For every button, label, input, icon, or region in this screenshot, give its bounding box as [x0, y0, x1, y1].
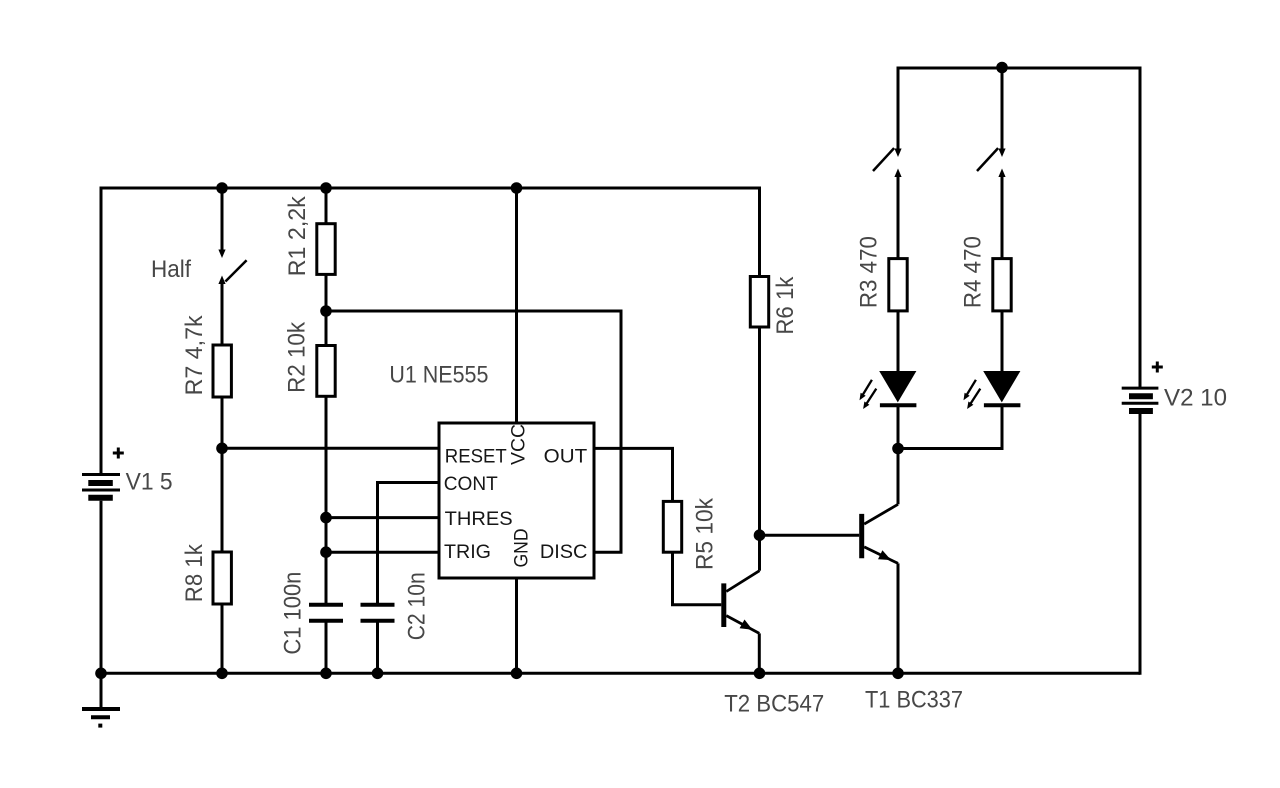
svg-text:GND: GND: [511, 529, 533, 568]
switch S2 bottom contact arrow: [998, 169, 1005, 178]
node GND bottom rail: [511, 668, 523, 680]
capacitor C2 bottom plate: [361, 619, 395, 623]
wire GND lead: [515, 578, 518, 673]
wire DISC net: [326, 311, 621, 552]
LED D2 cathode bar: [984, 403, 1021, 407]
wire R6 to T2 node: [758, 327, 761, 535]
battery V1 plate 2 (short): [88, 480, 113, 486]
node C2 bottom rail: [372, 668, 384, 680]
svg-text:R4 470: R4 470: [960, 236, 987, 308]
node C1 bottom rail: [320, 668, 332, 680]
ground bar 3: [98, 724, 102, 728]
wire CONT net: [378, 483, 440, 604]
resistor R1 body: [317, 224, 335, 275]
wire top right rail: [898, 67, 1140, 70]
svg-text:R3 470: R3 470: [856, 236, 883, 308]
battery V2 plate 3 (long): [1122, 402, 1159, 405]
node R1-R2 / DISC junction: [320, 305, 332, 317]
transistor T2 emitter arrow: [740, 620, 753, 630]
wire R3 to LED D1: [897, 311, 900, 372]
wire switch Half top lead: [221, 188, 224, 251]
capacitor C1 top plate: [309, 603, 343, 607]
wire RESET net: [222, 447, 439, 450]
switch S1 top contact arrow: [894, 149, 901, 158]
battery V1 plus sign: [113, 448, 124, 459]
svg-text:U1 NE555: U1 NE555: [389, 362, 488, 389]
battery V2 plate 4 (short): [1129, 408, 1153, 414]
wire T2 collector riser: [758, 535, 761, 571]
wire OUT net: [594, 448, 673, 501]
node left rail bottom: [95, 668, 107, 680]
resistor R6 body: [750, 277, 768, 328]
wire T2 emitter drop: [758, 633, 761, 673]
wire LED D1 to node: [897, 405, 900, 448]
wire left rail bottom (V1 minus lead): [100, 501, 103, 673]
switch S2 lever: [977, 148, 998, 171]
LED D2 triangle: [983, 371, 1020, 402]
transistor T1 emitter arrow: [878, 550, 891, 560]
resistor R7 body: [213, 345, 231, 397]
svg-text:R8 1k: R8 1k: [181, 543, 208, 602]
svg-text:R1 2,2k: R1 2,2k: [284, 195, 311, 276]
wire switch Half to R7: [221, 282, 224, 345]
node R1 top: [320, 182, 332, 194]
wire C1 to bottom rail: [325, 623, 328, 674]
svg-text:VCC: VCC: [508, 424, 530, 465]
resistor R3 body: [889, 259, 907, 311]
svg-text:R6 1k: R6 1k: [772, 276, 799, 335]
LED D1 triangle: [879, 371, 916, 402]
svg-text:TRIG: TRIG: [444, 541, 491, 563]
svg-text:OUT: OUT: [544, 445, 588, 467]
node TRIG junction: [320, 546, 332, 558]
node switch column top: [216, 182, 228, 194]
wire left rail top (V1 plus lead): [100, 187, 103, 475]
LED D1 cathode bar: [880, 403, 917, 407]
svg-text:T1 BC337: T1 BC337: [865, 687, 963, 714]
svg-text:CONT: CONT: [444, 473, 498, 495]
svg-text:THRES: THRES: [445, 508, 513, 530]
LED D2 light arrow 2: [969, 389, 980, 406]
node R7-R8 / RESET junction: [216, 443, 228, 455]
LED D1 light arrow 2: [865, 389, 876, 406]
node T2 collector / T1 base: [754, 529, 766, 541]
battery V1 plate 3 (long): [82, 489, 120, 492]
svg-text:C2 10n: C2 10n: [404, 572, 431, 640]
battery V2 plate 2 (short): [1129, 393, 1153, 399]
wire S1 to R3: [897, 175, 900, 259]
node T2 emitter bottom rail: [754, 668, 766, 680]
wire T1 base net: [760, 534, 860, 537]
svg-text:V1 5: V1 5: [126, 469, 173, 496]
wire R1 top lead: [325, 188, 328, 224]
resistor R4 body: [993, 259, 1011, 311]
transistor T2 collector: [726, 571, 759, 592]
wire VCC lead: [515, 188, 518, 423]
LED D2 light arrow 1: [966, 380, 976, 397]
capacitor C2 top plate: [361, 603, 395, 607]
wire R1 to R2: [325, 274, 328, 345]
switch Half lever: [225, 260, 246, 281]
wire switch S1 top lead: [897, 67, 900, 150]
wire R5 to T2 base: [673, 552, 722, 605]
switch S1 lever: [873, 148, 894, 171]
ground stub: [100, 673, 103, 708]
svg-text:R5 10k: R5 10k: [692, 497, 719, 570]
battery V1 plate 1 (long +): [82, 473, 120, 476]
wire S2 to R4: [1001, 175, 1004, 259]
node R8 bottom rail: [216, 668, 228, 680]
battery V2 plus sign: [1152, 362, 1163, 373]
svg-text:T2 BC547: T2 BC547: [724, 691, 824, 718]
transistor T1 collector: [864, 504, 898, 524]
resistor R5 body: [663, 501, 681, 552]
battery V1 plate 4 (short): [88, 495, 113, 501]
wire R4 to LED D2: [1001, 311, 1004, 372]
svg-text:RESET: RESET: [445, 445, 507, 467]
node VCC top rail: [511, 182, 523, 194]
transistor T1 emitter: [864, 547, 898, 564]
wire T1 collector riser: [897, 449, 900, 505]
svg-text:C1 100n: C1 100n: [280, 572, 307, 655]
ground bar 1: [82, 707, 120, 711]
wire R7 to R8: [221, 397, 224, 552]
switch S1 bottom contact arrow: [894, 169, 901, 178]
node THRES junction: [320, 512, 332, 524]
node LED2 branch top: [996, 62, 1008, 74]
switch Half bottom contact arrow: [218, 276, 225, 285]
wire LED D2 to junction: [898, 405, 1002, 448]
svg-text:R7 4,7k: R7 4,7k: [181, 314, 208, 395]
wire THRES net: [326, 516, 439, 519]
switch S2 top contact arrow: [998, 149, 1005, 158]
capacitor C1 bottom plate: [309, 619, 343, 623]
wire R2 to C1: [325, 396, 328, 603]
svg-text:R2 10k: R2 10k: [284, 321, 311, 393]
LED D1 light arrow 1: [862, 380, 872, 397]
svg-text:V2 10: V2 10: [1164, 385, 1227, 412]
op-amp U1 NE555 body: [439, 423, 594, 578]
wire bottom rail: [101, 672, 1140, 675]
node LED / T1 collector junction: [892, 443, 904, 455]
battery V2 plate 1 (long +): [1122, 387, 1159, 390]
wire top rail corner to R6: [758, 188, 760, 277]
transistor T2 base bar: [721, 583, 726, 627]
ground bar 2: [91, 715, 110, 719]
wire TRIG net: [326, 551, 439, 554]
wire top rail: [101, 187, 760, 190]
wire V2 top lead: [1139, 67, 1142, 389]
transistor T2 emitter: [726, 616, 759, 634]
node T1 emitter bottom rail: [892, 668, 904, 680]
wire R8 to bottom rail: [221, 604, 224, 673]
wire C2 to bottom rail: [376, 623, 379, 674]
svg-text:Half: Half: [151, 256, 191, 283]
svg-text:DISC: DISC: [540, 541, 588, 563]
switch Half top contact arrow: [218, 250, 225, 259]
wire V2 bottom lead: [1139, 414, 1142, 675]
transistor T1 base bar: [859, 514, 864, 558]
wire T1 emitter drop: [897, 563, 900, 673]
wire switch S2 top lead: [1001, 68, 1004, 150]
resistor R2 body: [317, 346, 335, 397]
resistor R8 body: [213, 552, 231, 604]
